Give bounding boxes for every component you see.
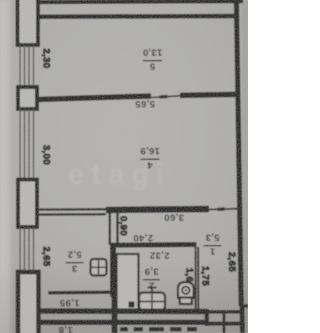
room label 3 / 5,2 [66,249,84,274]
wall band bottom line [40,320,207,325]
window lines lower (2,65 bay) [20,227,34,272]
wall band end cap [205,309,210,326]
fixture: wash basin [139,293,165,311]
wall kitchen jamb right line [116,213,118,245]
dimension 1,8 [58,324,72,333]
room label 5 / 13,0 [143,47,163,72]
wall room5/room4 left segment [37,96,151,100]
dimension 2,32 [149,250,169,261]
stair line upper [209,310,243,314]
door tick corridor [218,207,225,211]
dimension 1,75 [199,266,210,286]
wall bath/hall double right line [197,247,199,309]
wall: top outer line [36,1,243,2]
dimension 0,90 [117,216,128,236]
wall: right exterior [236,0,241,306]
dimension 2,65 left [40,246,51,266]
dimension 1,95 [59,297,79,308]
fixture: toilet bowl [178,282,194,299]
dimension 3,60 [164,212,184,223]
stair vertical [223,310,226,333]
wall bath/hall double left line [195,247,197,309]
lower flat wall stubs [120,327,197,331]
left photo margin strip [0,0,14,333]
paper background [0,0,248,333]
wall room3 bottom [48,291,114,295]
room label 2 / 3,9 [143,266,160,291]
hinge dot upper [129,302,135,308]
fixture: kitchen sink [91,259,107,276]
door tick room4 [160,95,168,99]
fixture: bathtub [117,254,139,310]
wall kitchen/bath vertical solid [110,244,116,297]
pier P2 square [18,87,37,109]
fixture: toilet tank [180,298,192,305]
fixture: toilet circle [182,287,189,294]
window lines middle (3,00 bay) [20,109,34,179]
room label 1 / 5,3 [204,232,222,257]
wall room4/room3 double line lower [37,213,106,216]
door threshold room4 [151,96,180,98]
dimension 2,40 [133,232,153,243]
right wall lower [240,305,245,333]
entry line right of wall [243,304,248,307]
dimension 2,65 right [226,252,237,272]
film grain overlay [0,0,248,333]
pier P4 bottom-left [18,272,39,333]
wall band top line [40,308,207,314]
right exterior shading [242,0,248,333]
dimension 1,6 [183,268,194,282]
wall vertical through band [112,297,118,333]
wall corridor thick [106,209,209,210]
fixture: wash basin faucet [148,287,157,293]
wall kitchen jamb left line [109,213,111,245]
dimension 5,65 [135,98,155,109]
stair line lower [209,322,243,326]
pier P1 top-left [18,0,39,45]
pier P3 [18,180,37,228]
bottom shading [0,0,248,333]
wall bathroom top [110,242,197,248]
window lines upper (2,30 bay) [20,45,34,87]
wall: top inner line [38,14,239,19]
dimension 3,00 [40,145,51,165]
wall room4/room3 double line upper [37,208,106,211]
wall room5/room4 right segment [180,94,238,95]
room label 4 / 16,9 [140,145,160,170]
dimension 2,30 [40,48,51,68]
door threshold corridor [209,208,237,211]
